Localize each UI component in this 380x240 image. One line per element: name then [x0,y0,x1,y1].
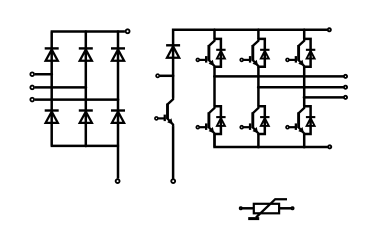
diode D2 [45,111,59,123]
chopper upper wire [172,44,175,97]
wire AC input L1 [35,73,52,76]
junction L2 col2 [84,86,87,89]
transistor T1 IGBT [196,38,214,67]
transistor T7 chopper IGBT [155,97,173,126]
cell frame T5 [304,39,310,67]
leg1 upper feed wire [213,30,216,39]
wire AC input L2 [35,86,86,89]
diode D6 [111,111,125,123]
leg3 midpoint wire [303,67,306,107]
rectifier column 2 wire [85,32,88,146]
junction top rail leg1 [213,28,216,31]
terminal rectifier DC- [116,179,120,183]
leg3 upper feed wire [303,30,306,39]
cell frame T1 [215,39,221,67]
terminal AC L2 [30,86,34,90]
wire AC input L3 [35,98,118,101]
junction L1 col1 [50,73,53,76]
junction L3 col3 [117,98,120,101]
junction rectifier rail col3 [117,30,120,33]
diode D11 freewheel [216,50,225,59]
diode D15 freewheel [306,50,315,59]
diode D12 freewheel [216,117,225,126]
cell frame T4 [258,106,264,134]
terminal rectifier DC+ [126,29,130,33]
transistor T4 IGBT [240,106,258,135]
junction bottom rail leg3 [303,146,306,149]
junction phase V tap [257,86,260,89]
leg2 upper feed wire [257,30,260,39]
terminal chopper emitter [171,179,175,183]
junction chopper tap [172,74,175,77]
diode D5 [111,48,125,60]
junction rectifier rail col2 [84,30,87,33]
rectifier column 3 wire [117,32,120,179]
cell frame T3 [258,39,264,67]
wire chopper brake terminal [160,75,173,78]
terminal inverter DC+ [328,28,331,31]
transistor T5 IGBT [286,38,304,67]
junction bottom rail leg2 [257,146,260,149]
thermistor R1 right wire [279,207,291,210]
terminal thermistor left [240,207,242,209]
diode D16 freewheel [306,117,315,126]
inverter DC- bottom rail wire [215,134,328,148]
thermistor R1 temperature foot [248,217,259,220]
terminal AC L1 [30,72,34,76]
transistor T6 IGBT [286,106,304,135]
phase U output wire [215,75,344,78]
junction rectifier bottom col2 [84,145,87,148]
transistor T2 IGBT [196,106,214,135]
diode D13 freewheel [260,50,269,59]
junction phase U tap [213,75,216,78]
thermistor R1 left wire [242,207,254,210]
leg1 midpoint wire [213,67,216,107]
diode D3 [79,48,93,60]
inverter DC+ top rail wire [173,30,327,46]
diode D14 freewheel [260,117,269,126]
terminal chopper brake resistor [156,74,159,77]
diode D4 [79,111,93,123]
diode D1 [45,48,59,60]
junction top rail leg2 [257,28,260,31]
chopper emitter wire [172,126,175,178]
phase V output wire [258,86,343,89]
terminal AC L3 [30,98,34,102]
rectifier DC+ top rail wire [51,30,125,33]
thermistor R1 body [254,204,279,214]
rectifier column 1 wire [50,32,53,146]
thermistor R1 temperature stroke [256,199,287,217]
terminal phase W [344,96,347,99]
rectifier DC- bottom rail wire [51,145,120,148]
terminal thermistor right [291,207,293,209]
leg3 lower wire [303,134,306,147]
terminal inverter DC- [328,145,331,148]
terminal phase V [344,86,347,89]
leg2 lower wire [257,134,260,147]
cell frame T2 [215,106,221,134]
phase W output wire [304,96,343,99]
cell frame T6 [304,106,310,134]
junction phase W tap [303,96,306,99]
diode D7 chopper [166,45,180,57]
transistor T3 IGBT [240,38,258,67]
leg2 midpoint wire [257,67,260,107]
terminal phase U [344,75,347,78]
leg1 lower wire [213,134,216,147]
junction top rail leg3 [303,28,306,31]
